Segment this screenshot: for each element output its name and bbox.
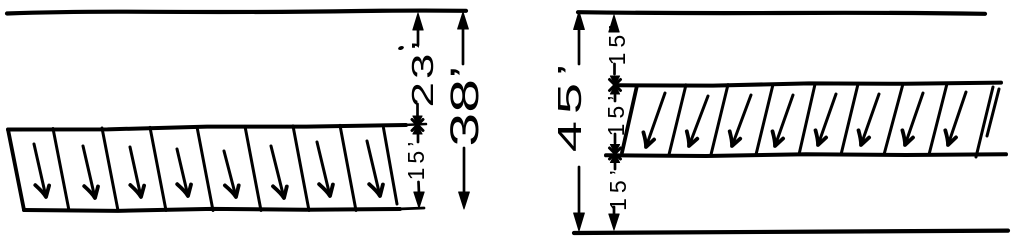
top boundary line (left diagram) bbox=[7, 11, 466, 14]
stall divider 1 (left band) bbox=[53, 129, 69, 211]
inner dimension line: top up arrow bbox=[609, 15, 619, 32]
stall divider 5 (left band) bbox=[245, 126, 261, 210]
dimension line 23ft shaft lower bbox=[416, 104, 419, 116]
stall divider 7 (right band) bbox=[929, 84, 947, 155]
parking arrow 3 (left band) bbox=[130, 147, 141, 197]
top boundary line (right diagram) bbox=[578, 12, 985, 14]
dimension line 23ft: up arrow at top line bbox=[413, 13, 423, 30]
dimension line 38ft up arrow bbox=[458, 12, 469, 29]
left band bottom edge extension bbox=[398, 208, 424, 209]
left band top edge bbox=[8, 125, 406, 130]
stall divider 3 (right band) bbox=[756, 85, 773, 155]
dimension line 15ft down arrow bbox=[414, 192, 424, 208]
svg-text:38’: 38’ bbox=[441, 65, 486, 146]
ink speck bbox=[398, 45, 405, 50]
svg-text:15’: 15’ bbox=[604, 20, 630, 66]
parking arrow 5 (right band) bbox=[818, 94, 836, 145]
dimension line 38ft down arrow bbox=[459, 192, 470, 209]
star junction (23ft/15ft) bbox=[413, 116, 422, 125]
stall divider 6 (left band) bbox=[293, 126, 309, 211]
parking arrow 2 (left band) bbox=[83, 146, 95, 198]
parking arrow 4 (right band) bbox=[775, 95, 793, 146]
inner dim shaft above bottom arrow bbox=[613, 207, 616, 215]
stall divider 2 (left band) bbox=[102, 128, 118, 211]
star junction bottom (right) bbox=[610, 145, 619, 154]
right band bottom edge bbox=[606, 154, 1006, 156]
star junction top (right) bbox=[610, 76, 619, 85]
stall divider 8 (right band) bbox=[976, 87, 993, 157]
dimension line 15ft (left) shaft upper bbox=[417, 134, 420, 142]
stall divider 4 (left band) bbox=[197, 127, 213, 211]
parking arrow 5 (left band) bbox=[224, 151, 236, 197]
parking arrow 1 (left band) bbox=[34, 144, 46, 197]
stall divider 4 (right band) bbox=[799, 84, 815, 154]
parking arrow 7 (left band) bbox=[317, 142, 330, 196]
svg-text:45’: 45’ bbox=[551, 57, 588, 152]
parking arrow 8 (right band) bbox=[948, 92, 966, 145]
left band top edge extension to dimension line bbox=[404, 124, 426, 125]
stall divider 1 (right band) bbox=[669, 85, 686, 155]
svg-text:15’: 15’ bbox=[605, 165, 631, 211]
parking arrow 2 (right band) bbox=[689, 96, 708, 146]
svg-text:15’: 15’ bbox=[603, 91, 629, 137]
right band top edge bbox=[617, 83, 1001, 86]
dimension line 38ft shaft upper bbox=[462, 27, 465, 64]
stall divider 8 (left band) bbox=[384, 128, 398, 204]
dimension line 15ft shaft lower bbox=[417, 182, 420, 194]
dimension line 45ft down arrow bbox=[574, 213, 585, 231]
dimension line 45ft shaft lower bbox=[578, 167, 581, 216]
stall divider 3 (left band) bbox=[150, 127, 166, 210]
inner dim shaft above bottom star bbox=[614, 134, 617, 143]
parking arrow 7 (right band) bbox=[905, 93, 923, 145]
parking arrow 3 (right band) bbox=[732, 95, 751, 146]
parking arrow 8 (left band) bbox=[367, 141, 380, 196]
dimension line 45ft up arrow bbox=[574, 12, 585, 30]
stall divider 7 (left band) bbox=[340, 125, 356, 210]
parking arrow 4 (left band) bbox=[177, 149, 188, 196]
inner dim shaft above top star bbox=[613, 64, 616, 74]
bottom boundary line (right diagram) bbox=[574, 231, 1008, 233]
inner dim shaft below top star bbox=[614, 95, 617, 101]
parking arrow 1 (right band) bbox=[646, 93, 665, 147]
svg-text:15’: 15’ bbox=[403, 138, 429, 181]
inner dim shaft below bottom star bbox=[614, 163, 617, 169]
stall divider 6 (right band) bbox=[884, 84, 903, 155]
parking arrow 6 (left band) bbox=[271, 146, 284, 198]
right band right edge (partial) bbox=[987, 89, 999, 136]
right band left edge bbox=[622, 86, 637, 153]
left band left edge bbox=[8, 130, 24, 211]
dimension line 23ft shaft upper bbox=[417, 26, 420, 45]
dimension line 38ft shaft lower bbox=[463, 148, 466, 194]
dimension line 45ft shaft upper bbox=[578, 27, 581, 64]
stall divider 2 (right band) bbox=[711, 85, 728, 155]
svg-text:23’: 23’ bbox=[406, 38, 440, 108]
parking arrow 6 (right band) bbox=[861, 94, 879, 145]
inner dimension line bottom down arrow bbox=[609, 214, 619, 230]
stall divider 5 (right band) bbox=[841, 84, 858, 155]
left band bottom edge bbox=[24, 209, 400, 211]
